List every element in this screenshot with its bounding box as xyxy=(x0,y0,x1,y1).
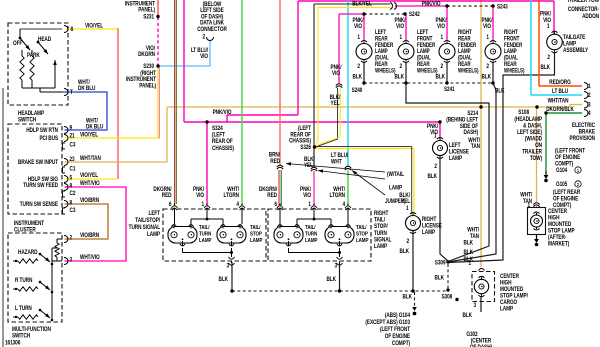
svg-text:S108: S108 xyxy=(518,109,529,116)
svg-text:LEFT: LEFT xyxy=(149,210,161,217)
svg-text:PANEL): PANEL) xyxy=(139,83,156,90)
svg-text:VIO: VIO xyxy=(437,24,446,31)
svg-text:8: 8 xyxy=(70,183,73,190)
svg-text:TURN SW SENSE: TURN SW SENSE xyxy=(20,201,59,208)
svg-text:BLK: BLK xyxy=(495,88,505,95)
svg-text:(ABS) G104: (ABS) G104 xyxy=(385,312,411,319)
svg-text:WHT/TAN: WHT/TAN xyxy=(548,98,569,105)
svg-text:YEL: YEL xyxy=(304,163,314,170)
svg-text:BLK: BLK xyxy=(463,312,473,319)
svg-text:CONNECTOR: CONNECTOR xyxy=(197,26,227,33)
svg-text:LAMP: LAMP xyxy=(305,238,318,245)
svg-text:S230: S230 xyxy=(143,63,154,70)
svg-text:OF ENGINE: OF ENGINE xyxy=(385,333,411,340)
svg-text:LAMP: LAMP xyxy=(147,231,160,238)
svg-text:BLK: BLK xyxy=(400,248,410,255)
svg-text:LAMP: LAMP xyxy=(500,306,513,313)
svg-text:WHT/TAN: WHT/TAN xyxy=(80,155,101,162)
svg-text:LT BLU: LT BLU xyxy=(552,88,568,95)
svg-text:C2: C2 xyxy=(70,190,76,197)
svg-text:ADDON: ADDON xyxy=(582,13,599,20)
svg-text:3: 3 xyxy=(588,102,591,109)
svg-text:1: 1 xyxy=(399,34,402,41)
svg-text:DK BLU: DK BLU xyxy=(78,86,95,93)
svg-text:2: 2 xyxy=(588,93,591,100)
svg-text:BLK: BLK xyxy=(436,74,446,81)
svg-text:S241: S241 xyxy=(444,86,455,93)
svg-text:BLK/YEL: BLK/YEL xyxy=(352,1,372,8)
svg-text:RED: RED xyxy=(267,193,277,200)
svg-text:DKGRN: DKGRN xyxy=(138,52,155,59)
svg-text:2: 2 xyxy=(70,235,73,242)
svg-text:8: 8 xyxy=(70,26,73,33)
svg-text:2: 2 xyxy=(357,63,360,70)
svg-text:WHT/VIO: WHT/VIO xyxy=(80,254,100,261)
svg-text:LAMP: LAMP xyxy=(389,185,402,192)
svg-text:COMPT): COMPT) xyxy=(392,340,410,347)
svg-text:PROVISION: PROVISION xyxy=(570,135,596,142)
svg-text:G104: G104 xyxy=(556,167,568,174)
svg-text:HDLP SW RTN: HDLP SW RTN xyxy=(26,127,58,134)
svg-text:2: 2 xyxy=(547,54,550,61)
svg-text:1: 1 xyxy=(486,34,489,41)
svg-text:VIO/YEL: VIO/YEL xyxy=(80,132,99,139)
svg-text:VIO/YEL: VIO/YEL xyxy=(80,172,99,179)
svg-text:S308: S308 xyxy=(441,294,452,301)
svg-text:1: 1 xyxy=(201,201,204,208)
svg-text:LAMP: LAMP xyxy=(422,230,435,237)
svg-text:BLK: BLK xyxy=(219,276,229,283)
svg-text:PNK/VIO: PNK/VIO xyxy=(213,109,233,116)
svg-text:8: 8 xyxy=(70,200,73,207)
svg-text:21: 21 xyxy=(70,133,75,140)
svg-text:9: 9 xyxy=(70,125,73,132)
svg-text:C1: C1 xyxy=(70,166,76,173)
svg-text:BLK: BLK xyxy=(428,173,438,180)
svg-text:BLK: BLK xyxy=(541,64,551,71)
svg-text:BLK: BLK xyxy=(353,74,363,81)
svg-text:LAMP: LAMP xyxy=(356,238,369,245)
svg-text:3: 3 xyxy=(334,263,337,270)
svg-text:161306: 161306 xyxy=(5,340,20,347)
svg-text:VIO/BRN: VIO/BRN xyxy=(80,232,99,239)
svg-text:VIO/BRN: VIO/BRN xyxy=(80,197,99,204)
svg-text:DK BLU: DK BLU xyxy=(86,124,103,131)
svg-text:1: 1 xyxy=(308,201,311,208)
svg-text:1: 1 xyxy=(547,23,550,30)
svg-text:CLUSTER: CLUSTER xyxy=(14,227,36,234)
svg-text:WHT/VIO: WHT/VIO xyxy=(80,180,100,187)
svg-text:BLK: BLK xyxy=(435,275,445,282)
svg-text:1: 1 xyxy=(527,202,530,209)
svg-text:TRAILER TOW: TRAILER TOW xyxy=(567,0,600,4)
svg-text:WHEELS): WHEELS) xyxy=(375,68,396,75)
svg-text:S240: S240 xyxy=(352,87,363,94)
svg-text:BLK: BLK xyxy=(464,256,474,263)
svg-text:VIO/YEL: VIO/YEL xyxy=(85,23,104,30)
svg-text:LAMP: LAMP xyxy=(449,156,462,163)
svg-text:BLK: BLK xyxy=(464,249,474,256)
svg-text:S243: S243 xyxy=(497,4,508,11)
svg-text:1: 1 xyxy=(440,34,443,41)
svg-text:VIO: VIO xyxy=(483,24,492,31)
svg-text:L TURN: L TURN xyxy=(15,305,32,312)
svg-text:HAZARD: HAZARD xyxy=(18,249,38,256)
svg-text:WHEELS): WHEELS) xyxy=(417,68,438,75)
svg-text:HEAD: HEAD xyxy=(38,36,51,43)
svg-text:6: 6 xyxy=(169,201,172,208)
svg-text:DASH): DASH) xyxy=(463,130,478,137)
svg-text:LAMP: LAMP xyxy=(199,238,212,245)
svg-text:1: 1 xyxy=(588,84,591,91)
svg-text:OFF: OFF xyxy=(13,40,23,47)
svg-text:WHT: WHT xyxy=(331,159,342,166)
svg-text:YEL: YEL xyxy=(401,199,411,206)
svg-text:DKGRN/BLK: DKGRN/BLK xyxy=(546,106,574,113)
svg-text:3: 3 xyxy=(226,263,229,270)
svg-text:LAMP: LAMP xyxy=(250,238,263,245)
svg-text:(EXCEPT ABS) G103: (EXCEPT ABS) G103 xyxy=(365,319,410,326)
svg-text:RED: RED xyxy=(162,193,172,200)
svg-text:PARK: PARK xyxy=(27,52,40,59)
svg-text:BLK: BLK xyxy=(395,74,405,81)
svg-text:6: 6 xyxy=(274,201,277,208)
svg-text:BRAKE SW INPUT: BRAKE SW INPUT xyxy=(18,159,59,166)
svg-text:1: 1 xyxy=(434,133,437,140)
svg-text:LTGRN: LTGRN xyxy=(224,193,240,200)
svg-text:VIO: VIO xyxy=(354,24,363,31)
svg-text:PNK/VIO: PNK/VIO xyxy=(422,1,442,8)
svg-text:R TURN: R TURN xyxy=(15,277,32,284)
svg-text:TAN: TAN xyxy=(471,143,480,150)
svg-text:TURN SW FEED: TURN SW FEED xyxy=(23,182,58,189)
svg-text:TURN SIGNAL: TURN SIGNAL xyxy=(129,224,161,231)
svg-text:BLK: BLK xyxy=(403,294,413,301)
svg-text:1: 1 xyxy=(406,205,409,212)
svg-text:YEL: YEL xyxy=(331,101,341,108)
svg-text:BLK: BLK xyxy=(327,276,337,283)
svg-text:SWITCH: SWITCH xyxy=(12,333,30,340)
svg-text:2: 2 xyxy=(399,63,402,70)
svg-text:VIO: VIO xyxy=(396,24,405,31)
svg-text:C3: C3 xyxy=(70,207,76,214)
svg-text:CHASSIS): CHASSIS) xyxy=(212,145,234,152)
svg-text:PANEL): PANEL) xyxy=(138,7,155,14)
svg-text:S326: S326 xyxy=(300,144,311,151)
svg-text:LAMP: LAMP xyxy=(374,243,387,250)
svg-text:VIO: VIO xyxy=(196,193,205,200)
svg-text:RED/ORG: RED/ORG xyxy=(549,79,570,86)
svg-text:LTGRN: LTGRN xyxy=(330,193,346,200)
svg-text:ASSEMBLY: ASSEMBLY xyxy=(563,47,588,54)
svg-text:2: 2 xyxy=(440,63,443,70)
svg-text:G105: G105 xyxy=(556,181,567,188)
svg-text:(LEFT FRONT: (LEFT FRONT xyxy=(380,326,411,333)
svg-text:PCI BUS: PCI BUS xyxy=(39,135,58,142)
svg-text:VIO: VIO xyxy=(303,193,312,200)
svg-text:WHEELS): WHEELS) xyxy=(458,68,479,75)
svg-text:(W/TAIL: (W/TAIL xyxy=(387,171,405,178)
svg-text:BLK: BLK xyxy=(482,74,492,81)
svg-text:S242: S242 xyxy=(409,11,420,18)
svg-text:2: 2 xyxy=(406,238,409,245)
svg-text:1: 1 xyxy=(357,34,360,41)
svg-text:23: 23 xyxy=(70,156,75,163)
svg-text:TAIL/STOP/: TAIL/STOP/ xyxy=(135,217,160,224)
svg-text:3: 3 xyxy=(70,257,73,264)
svg-text:VIO: VIO xyxy=(332,71,341,78)
svg-text:MARKET): MARKET) xyxy=(548,241,569,248)
svg-text:SWITCH: SWITCH xyxy=(18,117,36,124)
svg-text:TOW): TOW) xyxy=(530,155,542,162)
svg-text:3: 3 xyxy=(473,302,476,309)
svg-text:5: 5 xyxy=(70,175,73,182)
svg-text:2: 2 xyxy=(202,34,205,41)
svg-text:2: 2 xyxy=(486,63,489,70)
svg-text:WHEELS): WHEELS) xyxy=(504,68,525,75)
svg-text:CONNECTOR-: CONNECTOR- xyxy=(568,6,599,13)
svg-text:RED: RED xyxy=(270,158,280,165)
svg-text:BLK: BLK xyxy=(464,240,474,247)
svg-text:C3: C3 xyxy=(70,142,76,149)
svg-text:S309: S309 xyxy=(435,260,446,267)
svg-text:S231: S231 xyxy=(143,14,154,21)
svg-text:2: 2 xyxy=(434,163,437,170)
svg-text:VIO: VIO xyxy=(200,54,209,61)
